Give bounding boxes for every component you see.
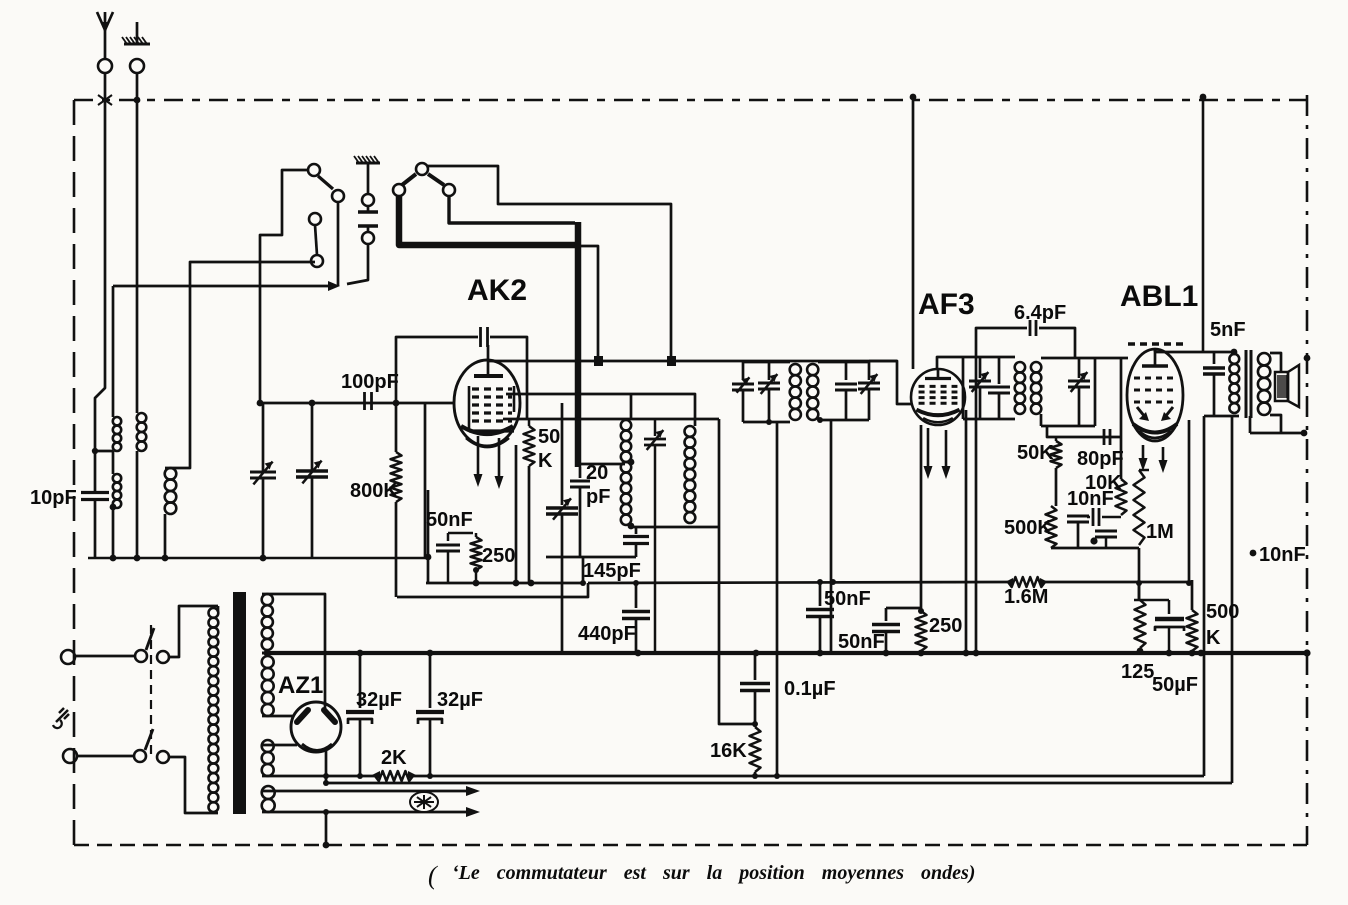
svg-text:20: 20 [586,462,608,484]
wire mains lower [77,755,133,758]
capacitor 50nF IF1 [819,580,822,606]
wire heater line upper [262,790,470,793]
switch S1 pole [332,190,344,202]
resistor 250 bias [475,533,478,537]
wire AK2 cathode leads [477,436,480,477]
capacitor 32uF second [429,653,432,708]
wire output cathode return [1203,653,1206,776]
IF2 primary box [963,356,1015,359]
svg-text:125: 125 [1121,661,1154,683]
wire detector bottom [1051,547,1139,550]
wire anode top rail [1155,351,1234,354]
svg-text:16K: 16K [710,740,747,762]
capacitor 10pF [81,491,109,494]
svg-text:6.4pF: 6.4pF [1014,302,1066,324]
variable capacitor IF1 primary [768,362,771,380]
wire HT bottom to AZ1 anode2 [262,715,294,718]
svg-text:AK2: AK2 [467,274,527,307]
speaker [1275,372,1288,401]
wire heater line lower [262,811,470,814]
coil L2 secondary [137,413,147,423]
wire osc thick vertical [575,222,582,467]
switch S3 contact right [443,184,455,196]
svg-text:K: K [538,450,553,472]
wire junction to decoupling [427,490,430,583]
wire AF3 anode to IF2 [937,357,963,368]
svg-text:500: 500 [1206,601,1239,623]
wire tap to coil L1 [95,450,113,453]
wire S1 to tuning cap [260,170,308,403]
wire ground bus RF section [88,557,428,560]
svg-text:50: 50 [538,426,560,448]
svg-text:145pF: 145pF [583,560,641,582]
wire 1M bottom column [1138,548,1141,600]
resistor 125 [1138,580,1141,600]
capacitor anode blocking [479,327,482,347]
wire IF2 sec bottom to 50K node [1047,426,1121,437]
capacitor 50nF AF3 bias [885,608,888,621]
output transformer primary [1229,354,1239,364]
wire IF1 to AF3 grid [869,361,911,404]
wire HT centre tap to bus [262,652,267,655]
transformer T1 rectifier filament winding [262,740,274,752]
tube ABL1 screen dashes [1128,342,1186,345]
wire primary bottom [1204,415,1239,418]
coil IF1 primary [790,364,801,375]
resistor 500K [1046,506,1057,548]
resistor 2K [262,775,375,778]
svg-text:10pF: 10pF [30,487,77,509]
wire osc bottom [546,556,636,559]
switch mains upper [135,650,147,662]
capacitor 50nF cathode [448,532,473,535]
transformer T1 HT secondary lower [262,656,274,668]
wire antenna cap to bus [94,500,97,558]
wire AF3 cathode leads [927,428,930,469]
wire IF1 sec bottom lead [830,420,833,653]
wire AF3 leads down [920,425,923,611]
wire AVC line [588,582,1008,583]
wire grid return [424,403,427,557]
wire speaker return [1231,653,1234,783]
svg-text:80pF: 80pF [1077,448,1124,470]
wire 10K column [1120,400,1123,437]
tube AK2 [454,360,520,446]
capacitor 145pF [635,526,638,534]
svg-text:250: 250 [482,545,515,567]
wire ABL1 anode top [1154,349,1157,352]
pilot lamp [410,792,438,812]
wire HT rail right [1202,97,1205,352]
wire osc coupling [578,463,625,466]
capacitor 20pF [579,467,582,478]
coil L1b antenna coupling lower [113,474,121,482]
variable capacitor osc trimmer [654,420,657,436]
antenna terminal [98,59,112,73]
wire AF3 anode from HT [912,97,915,369]
wire HT top to AZ1 anode [262,594,325,712]
transformer T1 heater winding [262,786,275,799]
switch S2 contact upper [362,194,374,206]
wire oscillator feed thin [427,166,671,361]
svg-text:AZ1: AZ1 [278,672,323,699]
svg-text:50nF: 50nF [824,588,871,610]
svg-text:AF3: AF3 [918,288,975,321]
svg-text:K: K [1206,627,1221,649]
capacitor IF2 fixed [998,357,1001,384]
svg-text:5nF: 5nF [1210,319,1246,341]
wire speaker down lead [1231,416,1234,653]
capacitor 80pF [1103,429,1106,445]
capacitor 6.4pF [976,328,1027,357]
svg-text:ABL1: ABL1 [1120,280,1198,313]
resistor 10K [1120,437,1123,479]
wire screen feed down [975,357,978,653]
wire S1 pole down [337,202,340,286]
frame chassis border (dashed) [74,99,1307,102]
transformer T1 primary [217,606,220,612]
antenna symbol [97,12,113,30]
capacitor IF1 sec fixed [845,362,848,380]
coil L1 antenna primary [112,286,115,417]
transformer T1 core [233,592,246,814]
wire AZ1 filament feed [262,744,297,747]
resistor 1.6M [1008,577,1045,587]
switch S3 pole [416,163,428,175]
earth terminal [130,59,144,73]
wire padder to row [347,244,368,284]
tube ABL1 inner arrows [1137,407,1145,417]
capacitor 10nF [1092,508,1095,526]
resistor 1M [1134,470,1145,545]
earth symbol switch [356,162,380,165]
svg-text:50nF: 50nF [426,509,473,531]
coil IF2 secondary [1031,362,1041,372]
svg-text:32µF: 32µF [356,689,402,711]
output transformer secondary [1258,353,1270,365]
svg-text:50K: 50K [1017,442,1054,464]
wire 50K down [528,466,531,583]
wire IF2 to ABL1 grid [1095,357,1128,360]
output transformer core [1245,350,1248,418]
wire secondary return [1250,432,1306,435]
variable capacitor IF1 secondary [868,362,871,380]
tube AF3 [911,369,965,425]
capacitor padder bars [358,210,378,213]
switch S1b fixed link [309,213,321,225]
wire loop right [490,337,527,420]
transformer T1 HT secondary upper [262,594,273,605]
capacitor 5nF [1213,352,1216,364]
wire earth lead [136,73,139,100]
IF1 primary box [742,362,745,380]
wire mains upper [75,655,134,658]
resistor 800K [395,403,398,452]
coil L3 long-wave [165,468,177,480]
wire antenna lead [104,73,107,100]
wire link row [113,285,336,288]
tube AZ1 rectifier [291,702,341,752]
wire earth column [136,100,139,413]
switch mains lower [134,750,146,762]
wire cathode bus [426,582,583,585]
variable capacitor tuning C2 [311,403,314,470]
label 10nF floating [1250,550,1257,557]
resistor 500K output [1187,610,1198,651]
wire heater centre to chassis [325,812,328,845]
wire IF1 primary bottom lead [776,422,779,776]
wire return line [326,782,1232,785]
wire AVC left branch [397,583,588,597]
coil L4 oscillator tapped [630,394,633,420]
capacitor trimmer detector [1067,515,1089,518]
wire speaker top [1270,353,1281,372]
switch S3 contact left [393,184,405,196]
wire output cathode column [1203,416,1206,653]
svg-text:440pF: 440pF [578,623,636,645]
tube AK2 grid box [468,386,471,431]
svg-text:‘Le commutateur est sur la: ‘Le commutateur est sur la position moye… [452,862,975,884]
svg-text:10nF: 10nF [1067,488,1114,510]
variable capacitor IF2 secondary [1078,358,1081,378]
svg-text:100pF: 100pF [341,371,399,393]
svg-text:250: 250 [929,615,962,637]
earth symbol [124,43,150,46]
svg-text:0.1µF: 0.1µF [784,678,836,700]
wire coil L3 to switch [165,262,315,468]
svg-text:1M: 1M [1146,521,1174,543]
resistor 16K [750,727,761,772]
capacitor 32uF first [359,653,362,708]
plug symbol [56,710,68,722]
wire to transformer top [169,606,218,657]
svg-text:32µF: 32µF [437,689,483,711]
wire osc grid medium [449,196,575,223]
wire 100pF grid line [262,402,455,405]
capacitor 50uF electrolytic [1168,600,1171,614]
switch S1 blade [318,176,333,189]
wire filter output line [413,775,1204,778]
wire 1M top to cathode [1139,469,1149,472]
wire screen bypass node [1191,580,1194,610]
wire RF line top [488,360,897,363]
switch S3 blade right [428,174,444,185]
switch gang link [150,625,152,758]
variable capacitor oscillator [561,403,564,505]
svg-text:1.6M: 1.6M [1004,586,1048,608]
capacitor 100pF [363,392,366,410]
wire 50K to 500K [1055,468,1058,506]
coil IF1 secondary [807,364,818,375]
svg-text:2K: 2K [381,747,407,769]
variable capacitor tuning C1 [262,403,265,471]
switch S3 blade left [402,174,416,185]
wire ABL1 cathode leads [1142,445,1145,461]
switch S2 contact lower [362,232,374,244]
wire AK2 aux lead [515,445,518,583]
resistor 250 AF3 [886,607,921,610]
wire padder chain [367,163,370,194]
wire osc branch right [578,246,598,361]
mains terminal upper [61,650,75,664]
wire ABL1 leads down [1188,420,1191,583]
svg-text:800K: 800K [350,480,398,502]
resistor 50K [528,419,531,426]
svg-text:50nF: 50nF [838,631,885,653]
wire to transformer bottom [169,757,218,813]
wire antenna down-lead [95,100,105,492]
wire screen line [506,394,695,426]
svg-text:(: ( [428,861,438,890]
resistor 50K [1055,437,1058,441]
wire osc box [631,526,719,529]
wire speaker bottom [1270,415,1281,433]
wire HT bus [267,651,1307,655]
coil L5 oscillator secondary [685,426,696,437]
svg-text:50µF: 50µF [1152,674,1198,696]
variable capacitor IF2 primary [979,357,982,378]
switch S1 contact [308,164,320,176]
wire AZ1 cathode down [325,751,328,783]
capacitor 440pF [635,583,638,608]
IF2 secondary box [1041,357,1095,360]
wire feedback loop [396,337,478,403]
svg-text:500K: 500K [1004,517,1052,539]
tube ABL1 [1127,349,1183,441]
svg-text:10nF: 10nF [1259,544,1306,566]
capacitor AV detector [1095,530,1117,533]
wire osc thick L [399,196,578,245]
capacitor 0.1uF [754,653,757,680]
wire 800K to AVC [395,502,398,597]
capacitor IF1 fixed [732,383,754,386]
wire suppressor line [503,418,719,421]
coil IF2 primary [1015,362,1025,372]
svg-text:pF: pF [586,486,610,508]
mains terminal lower [63,749,77,763]
